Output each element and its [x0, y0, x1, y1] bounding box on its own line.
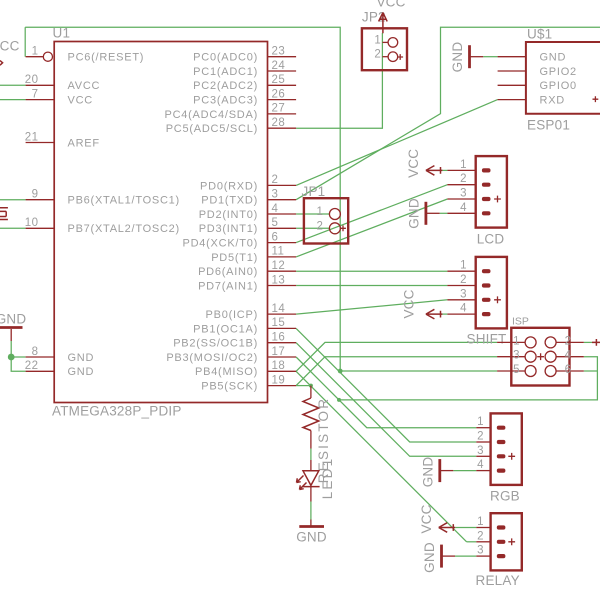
svg-text:23: 23 — [272, 46, 286, 58]
svg-text:28: 28 — [272, 117, 286, 129]
wire XTAL1 left — [0, 199, 26, 201]
wire U1 pin18 to RELAY pin2 diagonal — [296, 371, 467, 542]
svg-text:PB7(XTAL2/TOSC2): PB7(XTAL2/TOSC2) — [68, 223, 180, 235]
wire junction to U1 pin8 — [11, 356, 25, 358]
ISP pin 3 circle — [525, 351, 536, 362]
pin 21 AREF stub — [26, 142, 55, 144]
svg-text:GND: GND — [0, 312, 26, 327]
svg-text:3: 3 — [477, 545, 484, 557]
pin 12 PD6(AIN0) stub — [268, 270, 297, 272]
power VCC above JP2 — [379, 13, 388, 34]
RELAY pin 2 stub — [476, 541, 490, 543]
wire MOSI net to ISP pin4 — [339, 357, 597, 400]
svg-text:SHIFT: SHIFT — [467, 332, 507, 347]
svg-text:VCC: VCC — [68, 95, 93, 107]
svg-text:17: 17 — [272, 346, 286, 358]
RGB plus mark — [508, 453, 515, 460]
SHIFT plus mark — [494, 296, 501, 303]
pin 15 PB1(OC1A) stub — [268, 327, 297, 329]
junction dot LED branch — [309, 384, 313, 388]
connector JP1 body — [304, 198, 348, 243]
svg-text:25: 25 — [272, 74, 286, 86]
svg-text:4: 4 — [460, 202, 467, 214]
LED emission arrows — [297, 476, 304, 483]
svg-text:PC4(ADC4/SDA): PC4(ADC4/SDA) — [165, 109, 259, 121]
ISP pin 4 stub — [556, 356, 584, 358]
wire LED to GND — [310, 502, 312, 520]
pin 20 AVCC stub — [26, 84, 55, 86]
LCD pin 3 stub — [447, 198, 475, 200]
LED LED1 — [310, 460, 312, 471]
wire net RXD: ESP01 RXD diagonal to U1 pin2 — [296, 100, 498, 186]
svg-text:PD3(INT1): PD3(INT1) — [199, 223, 258, 235]
svg-text:4: 4 — [460, 303, 467, 315]
SHIFT pin 2 stub — [447, 285, 475, 287]
svg-text:14: 14 — [272, 303, 286, 315]
pin 19 PB5(SCK) stub — [268, 385, 297, 387]
svg-text:1: 1 — [317, 206, 324, 218]
ESP01 plus mark — [593, 96, 599, 102]
pin 9 PB6(XTAL1/TOSC1) stub — [26, 199, 55, 201]
RGB pin 1 stub — [476, 427, 490, 429]
pin 1 PC6(/RESET) stub — [26, 56, 44, 58]
svg-text:2: 2 — [565, 335, 572, 347]
svg-text:GND: GND — [68, 366, 95, 378]
svg-text:U1: U1 — [53, 26, 71, 41]
svg-text:5: 5 — [272, 217, 279, 229]
svg-text:VCC: VCC — [406, 149, 421, 178]
wire U1 pin17 to RGB pin1 — [296, 357, 476, 428]
ISP pin 5 stub — [497, 370, 525, 372]
pin 28 PC5(ADC5/SCL) stub — [268, 127, 297, 129]
connector JP2 body — [362, 28, 407, 70]
wire U1 pin14 to SHIFT pin3 — [296, 300, 447, 314]
ground GND left of U1 — [0, 326, 23, 329]
svg-text:15: 15 — [272, 317, 286, 329]
svg-text:13: 13 — [272, 274, 286, 286]
wire VCC to SHIFT pin4 — [442, 313, 447, 315]
svg-text:2: 2 — [317, 220, 324, 232]
svg-text:5: 5 — [513, 364, 520, 376]
ISP pin 1 stub — [497, 341, 525, 343]
pin 6 PD4(XCK/T0) stub — [268, 242, 297, 244]
svg-text:1: 1 — [460, 260, 467, 272]
svg-text:3: 3 — [460, 288, 467, 300]
wire resistor to LED — [310, 449, 312, 461]
ISP pin 5 circle — [525, 366, 536, 377]
wire U1 pin11 to LCD pin3 — [296, 199, 447, 257]
GND lead LCD — [427, 212, 440, 214]
GND lead ESP01 — [471, 56, 484, 58]
svg-text:GPIO2: GPIO2 — [540, 66, 577, 78]
svg-text:1: 1 — [513, 335, 520, 347]
svg-text:6: 6 — [565, 364, 572, 376]
svg-text:3: 3 — [460, 188, 467, 200]
svg-text:PD1(TXD): PD1(TXD) — [201, 195, 258, 207]
junction dot ISP5 — [338, 369, 343, 374]
RELAY plus mark — [508, 538, 515, 545]
svg-text:GND: GND — [68, 352, 95, 364]
svg-text:20: 20 — [25, 74, 39, 86]
power VCC at LCD pin1 — [426, 166, 443, 176]
svg-text:10: 10 — [25, 217, 39, 229]
svg-text:GND: GND — [422, 542, 437, 573]
svg-text:4: 4 — [477, 459, 484, 471]
wire GND to RELAY pin3 — [455, 555, 476, 557]
svg-text:2: 2 — [374, 49, 381, 61]
svg-text:3: 3 — [477, 445, 484, 457]
ISP pin 2 stub — [556, 341, 584, 343]
svg-text:1: 1 — [477, 416, 484, 428]
wire GND to ESP01 GND pin — [483, 56, 497, 58]
wire U1 pin19 to ISP pin3 — [296, 357, 497, 386]
svg-text:VCC: VCC — [376, 0, 405, 10]
svg-text:18: 18 — [272, 360, 286, 372]
pin 5 PD3(INT1) stub — [268, 227, 297, 229]
wire VCC pin7 left — [0, 99, 26, 101]
wire GND symbol down to U1 pin22 — [11, 341, 25, 371]
pin 11 PD5(T1) stub — [268, 256, 297, 258]
svg-text:LCD: LCD — [477, 231, 505, 246]
svg-text:PD6(AIN0): PD6(AIN0) — [198, 266, 258, 278]
pin 7 VCC stub — [26, 99, 55, 101]
RGB pin 2 stub — [476, 441, 490, 443]
svg-text:2: 2 — [477, 530, 484, 542]
connector LCD body — [476, 156, 507, 228]
svg-text:3: 3 — [272, 189, 279, 201]
ISP pin 6 stub — [556, 370, 584, 372]
GND lead left — [10, 329, 12, 341]
svg-text:GPIO0: GPIO0 — [540, 80, 577, 92]
svg-text:VCC: VCC — [419, 504, 434, 533]
ISP pin 4 circle — [545, 351, 556, 362]
IC U1 ATMEGA328P_PDIP body — [54, 42, 267, 403]
RELAY pin 1 stub — [476, 527, 490, 529]
svg-text:1: 1 — [477, 516, 484, 528]
pin 8 GND stub — [26, 356, 55, 358]
power VCC right of ISP (clipped) — [592, 339, 600, 346]
svg-text:7: 7 — [32, 88, 39, 100]
pin 13 PD7(AIN1) stub — [268, 285, 297, 287]
GND lead RGB — [441, 470, 454, 472]
ground GND at RGB pin4 — [438, 459, 441, 482]
svg-text:19: 19 — [272, 374, 286, 386]
svg-text:9: 9 — [32, 189, 39, 201]
svg-text:PC5(ADC5/SCL): PC5(ADC5/SCL) — [166, 123, 258, 135]
connector ISP body — [511, 328, 569, 386]
svg-text:JP1: JP1 — [302, 184, 326, 199]
svg-text:RGB: RGB — [490, 489, 520, 504]
svg-text:1: 1 — [374, 34, 381, 46]
pin 27 PC4(ADC4/SDA) stub — [268, 113, 297, 115]
svg-text:AVCC: AVCC — [68, 80, 101, 92]
GND lead RELAY — [443, 555, 456, 557]
wire XTAL2 left — [0, 227, 26, 229]
ESP01 pin GPIO0 stub — [498, 84, 526, 86]
svg-text:1: 1 — [460, 159, 467, 171]
svg-text:VCC: VCC — [401, 289, 416, 318]
wire VCC to LCD pin1 — [442, 169, 447, 171]
svg-text:26: 26 — [272, 88, 286, 100]
wire net TXD: top right run down to U1 pin3 — [296, 27, 600, 200]
svg-text:GND: GND — [540, 52, 567, 64]
wire U1 pin4 to JP1 pin1 — [296, 213, 329, 215]
ISP pin 6 circle — [545, 366, 556, 377]
svg-text:24: 24 — [272, 60, 286, 72]
resistor RESISTOR — [310, 386, 312, 398]
pin 16 PB2(SS/OC1B) stub — [268, 342, 297, 344]
ESP01 pin RXD stub — [498, 99, 526, 101]
svg-text:VCC: VCC — [0, 39, 20, 54]
svg-text:PB2(SS/OC1B): PB2(SS/OC1B) — [173, 338, 258, 350]
junction dot GND net — [8, 354, 15, 361]
svg-text:2: 2 — [460, 173, 467, 185]
pin 18 PB4(MISO) stub — [268, 370, 297, 372]
RGB pin 4 stub — [476, 470, 490, 472]
svg-text:21: 21 — [25, 131, 39, 143]
svg-text:11: 11 — [272, 246, 285, 258]
ground GND below LED — [299, 525, 324, 528]
svg-text:RELAY: RELAY — [476, 573, 520, 588]
svg-text:ATMEGA328P_PDIP: ATMEGA328P_PDIP — [52, 404, 182, 419]
wire into RELAY pin2 — [467, 541, 477, 543]
svg-text:ESP01: ESP01 — [527, 118, 570, 133]
wire ISP pin2 to VCC right — [584, 341, 592, 343]
wire U1 pin15 to RGB pin2 — [296, 328, 476, 442]
pin 23 PC0(ADC0) stub — [268, 56, 297, 58]
wire GND to LCD pin4 — [440, 212, 448, 214]
svg-text:PD5(T1): PD5(T1) — [211, 252, 258, 264]
wire U1 pin18 to ISP pin1 — [296, 342, 497, 371]
svg-text:PB3(MOSI/OC2): PB3(MOSI/OC2) — [166, 352, 258, 364]
power VCC at SHIFT pin4 — [426, 309, 443, 319]
ESP01 pin GND stub — [498, 56, 526, 58]
ground GND left of ESP01 — [468, 45, 471, 68]
svg-text:12: 12 — [272, 260, 286, 272]
svg-text:PC3(ADC3): PC3(ADC3) — [193, 95, 258, 107]
ground GND at RELAY pin3 — [440, 545, 443, 568]
svg-text:22: 22 — [25, 360, 39, 372]
ground GND at LCD pin4 — [424, 202, 427, 225]
crystal Q (clipped at left edge) — [0, 208, 8, 220]
svg-text:PB4(MISO): PB4(MISO) — [195, 366, 258, 378]
svg-text:GND: GND — [406, 198, 421, 229]
RGB pin 3 stub — [476, 455, 490, 457]
SHIFT pin 1 stub — [447, 270, 475, 272]
wire U1 pin5 to JP1 pin2 — [296, 227, 329, 229]
svg-text:2: 2 — [477, 431, 484, 443]
svg-text:GND: GND — [296, 530, 327, 545]
svg-text:27: 27 — [272, 103, 286, 115]
wire VCC to U1 pin1 vertical — [24, 27, 26, 57]
LCD pin 1 stub — [447, 169, 475, 171]
LCD pin 2 stub — [447, 184, 475, 186]
svg-text:PD2(INT0): PD2(INT0) — [199, 209, 258, 221]
svg-text:PB6(XTAL1/TOSC1): PB6(XTAL1/TOSC1) — [68, 195, 180, 207]
connector SHIFT body — [476, 257, 507, 329]
wire U1 pin6 to LCD pin2 — [296, 185, 447, 243]
svg-text:GND: GND — [420, 457, 435, 488]
pin 2 PD0(RXD) stub — [268, 184, 297, 186]
svg-text:6: 6 — [272, 231, 279, 243]
svg-text:8: 8 — [32, 346, 39, 358]
pin 4 PD2(INT0) stub — [268, 213, 297, 215]
ISP plus mark — [537, 353, 544, 360]
pin 25 PC2(ADC2) stub — [268, 84, 297, 86]
junction dot MOSI tap — [337, 398, 341, 402]
power VCC at RELAY pin1 — [439, 523, 456, 533]
pin 1 inversion bubble — [43, 52, 52, 61]
wire net RESET: top run, down at x340 to ISP pin5 — [25, 27, 497, 371]
svg-text:U$1: U$1 — [527, 27, 552, 42]
connector RGB body — [491, 413, 522, 485]
svg-text:3: 3 — [513, 350, 520, 362]
svg-text:PC1(ADC1): PC1(ADC1) — [193, 66, 258, 78]
wire U1 pin12 to SHIFT pin1 — [296, 270, 447, 272]
svg-text:PB1(OC1A): PB1(OC1A) — [193, 323, 258, 335]
pin 3 PD1(TXD) stub — [268, 199, 297, 201]
LCD pin 4 stub — [447, 212, 475, 214]
svg-text:PC2(ADC2): PC2(ADC2) — [193, 80, 258, 92]
svg-text:PC0(ADC0): PC0(ADC0) — [193, 52, 258, 64]
svg-text:LED1: LED1 — [320, 457, 335, 500]
wire ISP pin6 right — [584, 370, 598, 372]
wire VCC to RELAY pin1 — [455, 527, 476, 529]
pin 17 PB3(MOSI/OC2) stub — [268, 356, 297, 358]
svg-text:4: 4 — [565, 350, 572, 362]
wire U1 pin16 to RGB pin3 — [296, 343, 476, 457]
svg-text:ISP: ISP — [512, 316, 529, 328]
pin 24 PC1(ADC1) stub — [268, 70, 297, 72]
pin 22 GND stub — [26, 370, 55, 372]
svg-text:PB0(ICP): PB0(ICP) — [206, 309, 258, 321]
SHIFT pin 4 stub — [447, 313, 475, 315]
RELAY pin 3 stub — [476, 555, 490, 557]
ISP pin 3 stub — [497, 356, 525, 358]
pin 10 PB7(XTAL2/TOSC2) stub — [26, 227, 55, 229]
wire U1 pin28 to JP2/VCC — [296, 33, 382, 128]
wire GND to RGB pin4 — [453, 470, 476, 472]
ISP pin 2 circle — [545, 337, 556, 348]
svg-text:4: 4 — [272, 203, 279, 215]
wire AVCC left — [0, 84, 26, 86]
svg-text:2: 2 — [460, 274, 467, 286]
SHIFT pin 3 stub — [447, 299, 475, 301]
svg-text:RXD: RXD — [540, 95, 565, 107]
wire U1 pin13 to SHIFT pin2 — [296, 285, 447, 287]
svg-text:PD0(RXD): PD0(RXD) — [200, 180, 258, 192]
pin 14 PB0(ICP) stub — [268, 313, 297, 315]
wire U1 pin19 to resistor — [296, 385, 311, 387]
svg-text:GND: GND — [450, 42, 465, 73]
svg-text:AREF: AREF — [68, 137, 100, 149]
ISP pin 1 circle — [525, 337, 536, 348]
svg-text:PC6(/RESET): PC6(/RESET) — [68, 52, 145, 64]
ESP01 pin GPIO2 stub — [498, 70, 526, 72]
connector RELAY body — [491, 513, 522, 570]
module U$1 ESP01 body (clipped right) — [526, 42, 600, 114]
pin 26 PC3(ADC3) stub — [268, 99, 297, 101]
svg-text:PD7(AIN1): PD7(AIN1) — [198, 280, 258, 292]
LCD plus mark — [494, 196, 501, 203]
svg-text:2: 2 — [272, 174, 279, 186]
svg-text:1: 1 — [32, 46, 39, 58]
svg-text:16: 16 — [272, 332, 286, 344]
svg-text:PD4(XCK/T0): PD4(XCK/T0) — [183, 238, 259, 250]
svg-text:PB5(SCK): PB5(SCK) — [201, 381, 258, 393]
